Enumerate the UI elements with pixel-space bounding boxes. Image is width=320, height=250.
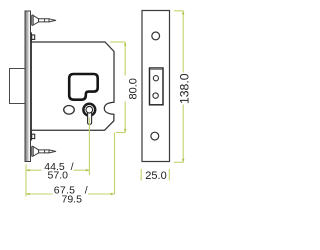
oval hole	[64, 106, 75, 115]
dimension 80.0 (vertical, case height)	[110, 42, 125, 194]
arrowhead 138.0 bottom	[182, 159, 184, 163]
svg-text:80.0: 80.0	[127, 78, 139, 99]
bottom fixing lug	[31, 131, 35, 141]
bolt aperture top shade	[150, 68, 162, 70]
svg-text:79.5: 79.5	[62, 194, 83, 206]
key follower inner circle	[86, 106, 93, 113]
svg-text:25.0: 25.0	[145, 170, 166, 182]
dimension 138.0 (vertical, plate height)	[174, 11, 183, 163]
lock case body (side view, chamfered corners, spindle notch)	[31, 42, 114, 130]
top fixing lug	[31, 32, 35, 42]
bottom screw hole	[151, 132, 159, 140]
aperture hole upper	[153, 76, 158, 81]
bottom wood screw (head, cone, shank, tip)	[32, 146, 56, 156]
centerline from follower (extension line for 44.5/57.0)	[88, 118, 90, 176]
forend plate (front view)	[142, 11, 170, 162]
aperture hole lower	[153, 93, 158, 98]
lever-pack cutout (stepped rounded opening)	[69, 74, 98, 100]
svg-text:138.0: 138.0	[178, 73, 192, 104]
top wood screw (head, cone, shank, tip)	[32, 15, 56, 25]
deadbolt (thrown, projecting left)	[10, 69, 26, 104]
dimension 25.0 (plate width) left extension	[140, 169, 142, 181]
key follower outer boss	[83, 104, 95, 116]
arrowhead 80.0 top	[124, 42, 126, 46]
dimension 25.0 right extension	[168, 169, 170, 181]
faceplate (forend, edge-on side view)	[25, 11, 31, 162]
arrowhead 44.5 left	[26, 169, 30, 171]
key stem	[88, 110, 92, 124]
bolt aperture box	[150, 68, 164, 105]
arrowhead 67.5 left	[26, 193, 30, 195]
arrowhead 138.0 top	[182, 11, 184, 15]
dimension 67.5/79.5 (case depth, horizontal)	[26, 193, 115, 195]
top screw hole	[152, 32, 160, 40]
arrowhead 44.5 right	[86, 169, 90, 171]
dimension 44.5/57.0 (backset, horizontal)	[26, 165, 89, 197]
arrowhead 80.0 bottom	[124, 129, 126, 133]
svg-text:57.0: 57.0	[48, 170, 69, 182]
arrowhead 67.5 right	[111, 193, 115, 195]
